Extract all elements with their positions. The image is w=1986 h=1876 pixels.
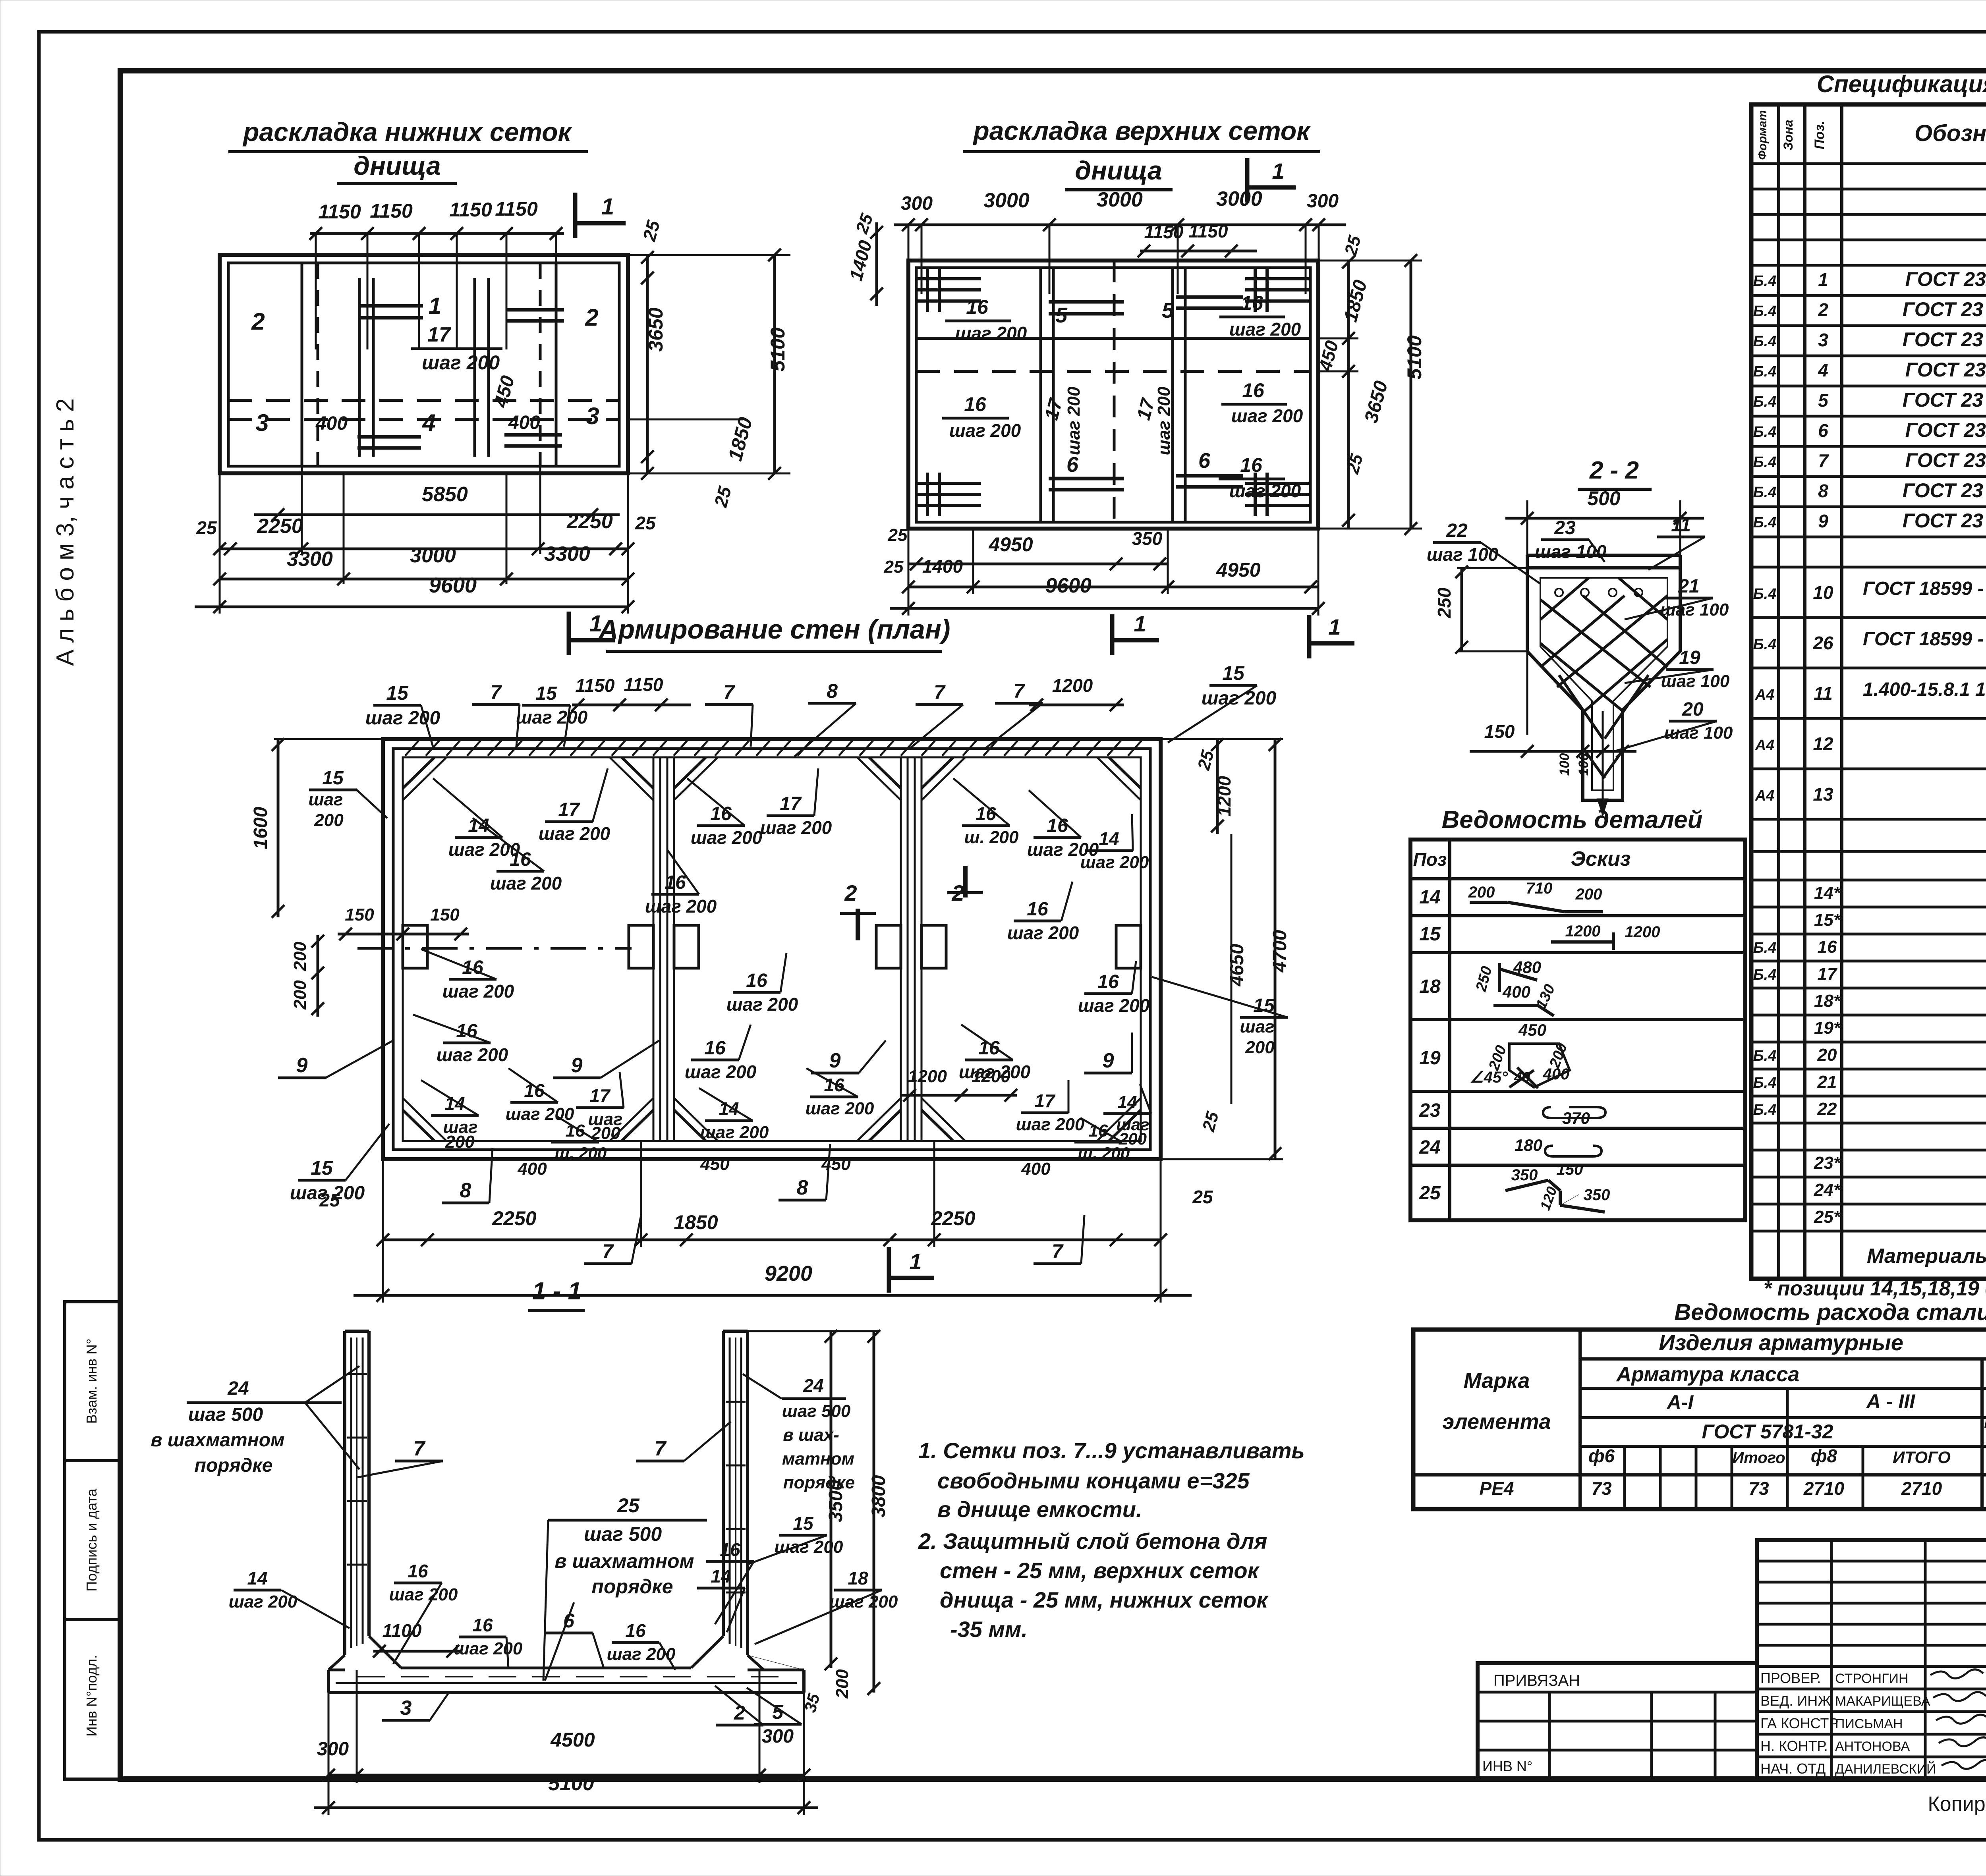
drawing C left labels: [309, 768, 387, 818]
svg-text:шаг 200: шаг 200: [1064, 386, 1084, 455]
svg-text:шаг 200: шаг 200: [1007, 923, 1079, 943]
svg-text:300: 300: [901, 193, 933, 214]
svg-text:в днище емкости.: в днище емкости.: [937, 1497, 1142, 1522]
svg-text:9600: 9600: [429, 573, 477, 597]
svg-text:150: 150: [430, 905, 460, 924]
svg-text:25: 25: [888, 525, 908, 545]
svg-text:шаг 200: шаг 200: [1016, 1115, 1085, 1134]
svg-text:шаг 200: шаг 200: [726, 994, 798, 1015]
svg-text:МАКАРИЩЕВА: МАКАРИЩЕВА: [1835, 1694, 1930, 1709]
svg-text:11: 11: [1814, 683, 1833, 704]
svg-text:16: 16: [1241, 292, 1263, 314]
svg-text:шаг 200: шаг 200: [1229, 319, 1301, 340]
svg-text:Б.4: Б.4: [1753, 1048, 1777, 1064]
svg-text:А4: А4: [1755, 787, 1775, 804]
svg-text:ГОСТ 23 279 - 85: ГОСТ 23 279 - 85: [1903, 510, 1986, 532]
svg-text:шаг 100: шаг 100: [1661, 672, 1730, 691]
svg-text:ф6: ф6: [1588, 1446, 1615, 1466]
svg-text:шаг 200: шаг 200: [1078, 995, 1150, 1016]
svg-text:7: 7: [490, 681, 502, 703]
drawing C cell 1 labels: [433, 778, 520, 860]
svg-text:3: 3: [586, 403, 599, 429]
svg-text:Изделия арматурные: Изделия арматурные: [1659, 1330, 1903, 1355]
left margin stamp boxes: [65, 1302, 120, 1779]
svg-text:Б.4: Б.4: [1753, 586, 1777, 602]
svg-text:3: 3: [255, 409, 269, 436]
svg-text:3000: 3000: [1097, 188, 1143, 211]
bottom annotations: [1928, 1791, 1986, 1847]
svg-text:16: 16: [1240, 454, 1263, 476]
section 1-1 tank walls: [345, 1331, 748, 1655]
svg-text:150: 150: [1557, 1161, 1583, 1178]
svg-text:15: 15: [322, 768, 344, 789]
svg-text:Б.4: Б.4: [1753, 484, 1777, 501]
drawing C corner fillets: [403, 757, 1141, 1141]
svg-text:2 - 2: 2 - 2: [1589, 457, 1639, 484]
svg-text:ГОСТ 23279 - 85: ГОСТ 23279 - 85: [1905, 419, 1986, 441]
svg-text:400: 400: [315, 413, 348, 434]
svg-text:ИНВ N°: ИНВ N°: [1482, 1758, 1532, 1774]
svg-text:шаг 200: шаг 200: [490, 873, 562, 894]
svg-text:1150: 1150: [318, 201, 361, 223]
svg-text:матном: матном: [782, 1449, 854, 1469]
svg-text:ш. 200: ш. 200: [964, 828, 1019, 847]
svg-text:шаг 200: шаг 200: [437, 1044, 508, 1065]
details list table: [1410, 840, 1745, 1220]
svg-text:ф8: ф8: [1811, 1446, 1837, 1466]
svg-text:1200: 1200: [1052, 675, 1093, 696]
svg-text:ВЕД. ИНЖ: ВЕД. ИНЖ: [1760, 1693, 1831, 1709]
svg-text:элемента: элемента: [1442, 1410, 1551, 1434]
svg-text:350: 350: [1132, 528, 1163, 549]
svg-text:180: 180: [1515, 1136, 1542, 1154]
svg-text:Эскиз: Эскиз: [1571, 847, 1631, 870]
svg-text:200: 200: [1575, 886, 1602, 903]
svg-text:1: 1: [601, 194, 614, 220]
drawing A bottom section mark 1: [569, 611, 615, 655]
drawing C bottom dimensions: [319, 1141, 1213, 1303]
svg-text:ГОСТ 23 279 - 85: ГОСТ 23 279 - 85: [1903, 298, 1986, 320]
svg-text:23: 23: [1419, 1100, 1441, 1121]
svg-text:20: 20: [1817, 1045, 1837, 1065]
svg-text:15: 15: [311, 1157, 333, 1179]
svg-text:6: 6: [1818, 420, 1828, 441]
svg-text:9: 9: [296, 1054, 308, 1077]
svg-text:16: 16: [1242, 379, 1265, 401]
svg-text:73: 73: [1748, 1478, 1769, 1499]
svg-text:ИТОГО: ИТОГО: [1893, 1448, 1951, 1467]
svg-text:14: 14: [1118, 1092, 1137, 1112]
svg-text:73: 73: [1591, 1478, 1612, 1499]
svg-text:16: 16: [964, 393, 987, 415]
svg-text:4950: 4950: [1216, 559, 1260, 581]
svg-text:шаг: шаг: [1240, 1017, 1274, 1036]
notes text: [918, 1438, 1305, 1642]
svg-text:8: 8: [460, 1179, 471, 1202]
svg-text:5100: 5100: [1403, 335, 1426, 379]
svg-text:шаг 500: шаг 500: [782, 1401, 851, 1421]
svg-text:шаг 200: шаг 200: [442, 981, 514, 1002]
svg-text:Б.4: Б.4: [1753, 363, 1777, 380]
svg-text:25: 25: [1419, 1183, 1441, 1204]
svg-text:24: 24: [227, 1378, 249, 1399]
svg-text:150: 150: [345, 905, 374, 924]
svg-text:14: 14: [247, 1568, 267, 1588]
svg-text:6: 6: [1198, 449, 1211, 473]
svg-text:шаг 200: шаг 200: [806, 1099, 874, 1118]
svg-text:Н. КОНТР.: Н. КОНТР.: [1760, 1738, 1828, 1754]
drawing C top labels: [365, 682, 440, 747]
specification table grid: [1751, 104, 1986, 1279]
svg-text:16: 16: [1027, 899, 1048, 920]
svg-text:днища: днища: [354, 151, 440, 180]
drawing B bottom section mark 1: [1112, 611, 1159, 655]
svg-text:16: 16: [408, 1561, 428, 1581]
svg-text:7: 7: [413, 1437, 426, 1460]
svg-text:15: 15: [1419, 924, 1441, 945]
svg-text:7: 7: [1818, 450, 1829, 471]
detail sketch pos 19: [1470, 1021, 1571, 1088]
svg-text:2: 2: [251, 308, 265, 335]
drawing C title: [598, 614, 950, 651]
svg-text:200: 200: [833, 1669, 852, 1699]
drawing C section marks 2-2: [840, 866, 983, 940]
svg-text:7: 7: [934, 681, 946, 703]
svg-text:Итого: Итого: [1732, 1449, 1785, 1467]
svg-text:1100: 1100: [383, 1620, 422, 1641]
steel table grid: [1413, 1330, 1986, 1509]
svg-text:в шахматном: в шахматном: [554, 1550, 694, 1572]
svg-text:17: 17: [780, 793, 802, 814]
svg-text:* позиции 14,15,18,19 см. вед: * позиции 14,15,18,19 см. ведомость дета…: [1764, 1277, 1986, 1300]
drawing A right dimensions: [220, 218, 790, 510]
svg-text:13: 13: [1813, 784, 1833, 805]
svg-text:ш. 200: ш. 200: [1078, 1144, 1130, 1162]
svg-text:Ведомость расхода стали на эле: Ведомость расхода стали на элемент, кг: [1674, 1299, 1986, 1325]
detail sketch pos 23: [1543, 1107, 1605, 1127]
specification title: [1777, 71, 1986, 104]
svg-text:Всего: Всего: [1984, 1413, 1986, 1432]
svg-text:21: 21: [1817, 1072, 1837, 1092]
svg-text:200: 200: [290, 942, 310, 971]
svg-text:25: 25: [635, 513, 656, 533]
svg-text:порядке: порядке: [591, 1575, 673, 1598]
svg-text:3: 3: [1818, 330, 1828, 350]
svg-text:раскладка верхних сеток: раскладка верхних сеток: [972, 116, 1311, 145]
svg-text:Б.4: Б.4: [1753, 514, 1777, 531]
svg-text:18: 18: [1419, 976, 1441, 997]
svg-text:6: 6: [1066, 453, 1079, 477]
section 1-1 wall tie ticks: [347, 1374, 746, 1592]
svg-text:19: 19: [1679, 647, 1700, 668]
detail 2-2 left dimension 250: [1434, 566, 1527, 654]
svg-text:9600: 9600: [1045, 574, 1092, 597]
svg-text:2710: 2710: [1901, 1478, 1942, 1499]
svg-text:7: 7: [1013, 680, 1025, 702]
svg-text:2: 2: [585, 304, 598, 331]
svg-text:11: 11: [1671, 515, 1691, 536]
svg-text:1200: 1200: [908, 1067, 947, 1086]
svg-text:23*: 23*: [1814, 1153, 1841, 1173]
detail 2-2 footing outline: [1527, 555, 1680, 800]
svg-text:1150: 1150: [1189, 221, 1228, 241]
svg-text:Армирование стен (план): Армирование стен (план): [598, 614, 950, 645]
svg-text:Б.4: Б.4: [1753, 394, 1777, 410]
svg-text:1: 1: [1818, 269, 1828, 290]
svg-text:3300: 3300: [544, 542, 590, 566]
title block signatures: [1760, 1669, 1986, 1777]
svg-text:шаг 200: шаг 200: [1080, 853, 1149, 872]
svg-text:200: 200: [1468, 884, 1495, 901]
svg-text:шаг 200: шаг 200: [516, 707, 588, 728]
svg-text:2: 2: [844, 880, 857, 905]
svg-text:5100: 5100: [767, 327, 789, 371]
svg-text:1200: 1200: [972, 1067, 1010, 1086]
svg-text:А л ь б о м 3, ч а с т ь 2: А л ь б о м 3, ч а с т ь 2: [52, 398, 79, 666]
svg-text:25*: 25*: [1814, 1207, 1841, 1227]
svg-text:Ведомость деталей: Ведомость деталей: [1442, 806, 1703, 834]
svg-text:18: 18: [848, 1568, 868, 1588]
svg-text:ДАНИЛЕВСКИЙ: ДАНИЛЕВСКИЙ: [1835, 1762, 1936, 1777]
svg-text:400: 400: [517, 1159, 547, 1179]
svg-text:шаг 200: шаг 200: [645, 896, 717, 917]
section 1-1 bottom dimensions: [314, 1670, 818, 1815]
svg-text:2250: 2250: [257, 515, 303, 538]
svg-text:7: 7: [723, 681, 735, 703]
svg-text:21: 21: [1678, 576, 1699, 597]
svg-text:10: 10: [1813, 582, 1833, 603]
svg-text:25: 25: [196, 517, 217, 538]
svg-text:Подпись и дата: Подпись и дата: [83, 1488, 100, 1592]
svg-text:в шахматном: в шахматном: [151, 1430, 284, 1451]
svg-text:5: 5: [1818, 390, 1829, 411]
drawing C top wall hatch: [405, 741, 1142, 756]
specification header texts: [1756, 110, 1986, 160]
svg-text:шаг 200: шаг 200: [422, 351, 500, 374]
svg-text:Б.4: Б.4: [1753, 1075, 1777, 1091]
svg-text:шаг 200: шаг 200: [229, 1592, 298, 1612]
specification rows 1-9: [1753, 268, 1986, 298]
svg-text:-35 мм.: -35 мм.: [950, 1617, 1028, 1642]
svg-text:400: 400: [1021, 1159, 1051, 1179]
svg-text:Спецификация к монолитной е: Спецификация к монолитной емкости РЕЧ: [1817, 71, 1986, 97]
svg-text:1: 1: [1134, 611, 1146, 636]
svg-text:4: 4: [422, 409, 435, 436]
svg-text:Б.4: Б.4: [1753, 333, 1777, 350]
svg-text:Б.4: Б.4: [1753, 454, 1777, 471]
svg-text:шаг 100: шаг 100: [1535, 541, 1607, 562]
svg-text:16: 16: [824, 1075, 844, 1095]
svg-text:1400: 1400: [922, 556, 963, 577]
drawing B bottom dimension chains: [884, 525, 1325, 616]
detail 2-2 labels: [1427, 520, 1540, 584]
svg-text:14: 14: [711, 1566, 731, 1586]
svg-text:Б.4: Б.4: [1753, 303, 1777, 320]
svg-text:1: 1: [1272, 158, 1284, 183]
svg-text:200: 200: [445, 1132, 475, 1152]
svg-text:Поз.: Поз.: [1812, 121, 1827, 149]
svg-text:200: 200: [290, 980, 310, 1010]
drawing B labels: [942, 292, 1303, 501]
svg-text:днища - 25 мм, нижних сеток: днища - 25 мм, нижних сеток: [940, 1587, 1269, 1612]
svg-text:15: 15: [793, 1513, 814, 1534]
svg-text:3300: 3300: [287, 548, 333, 571]
svg-text:шаг 200: шаг 200: [700, 1123, 769, 1142]
svg-text:ГОСТ 18599 - 83: ГОСТ 18599 - 83: [1863, 578, 1986, 599]
svg-text:300: 300: [317, 1739, 349, 1760]
svg-text:25: 25: [884, 557, 904, 577]
svg-text:8: 8: [827, 680, 838, 702]
svg-text:150: 150: [1484, 721, 1515, 742]
svg-text:Арматура класса: Арматура класса: [1616, 1363, 1800, 1386]
svg-text:19: 19: [1419, 1048, 1441, 1069]
section 1-1 title: [528, 1278, 585, 1310]
svg-text:Б.4: Б.4: [1753, 636, 1777, 653]
svg-text:450: 450: [821, 1154, 851, 1174]
svg-text:1150: 1150: [370, 200, 413, 222]
svg-text:7: 7: [602, 1240, 614, 1262]
svg-text:16: 16: [1818, 937, 1837, 957]
svg-text:5: 5: [1055, 303, 1068, 327]
svg-text:17: 17: [1034, 1090, 1056, 1111]
svg-text:350: 350: [1511, 1166, 1538, 1184]
drawing B internal lines: [916, 261, 1310, 529]
svg-text:ГОСТ 23279 - 85: ГОСТ 23279 - 85: [1905, 449, 1986, 471]
svg-text:200: 200: [1245, 1038, 1275, 1057]
svg-text:1200: 1200: [1565, 923, 1601, 940]
svg-text:1850: 1850: [674, 1211, 718, 1233]
svg-text:2: 2: [1818, 299, 1828, 320]
drawing B title: [963, 116, 1320, 190]
svg-text:А4: А4: [1755, 737, 1775, 754]
svg-text:шаг 500: шаг 500: [584, 1523, 662, 1545]
drawing A title: [228, 117, 588, 183]
svg-text:Формат: Формат: [1756, 110, 1769, 160]
svg-text:1. Сетки поз. 7...9 устанавли: 1. Сетки поз. 7...9 устанавливать: [918, 1438, 1305, 1463]
svg-text:7: 7: [1052, 1240, 1064, 1262]
svg-text:17: 17: [427, 323, 451, 346]
svg-text:Обозначение: Обозначение: [1915, 120, 1986, 146]
detail sketch pos 18: [1473, 958, 1559, 1016]
svg-text:∠45°: ∠45°: [1470, 1069, 1508, 1086]
drawing C cell 3 labels: [953, 778, 1019, 847]
svg-text:шаг 200: шаг 200: [454, 1639, 523, 1658]
svg-text:250: 250: [1434, 587, 1455, 618]
svg-text:9: 9: [571, 1054, 583, 1077]
svg-text:24: 24: [1419, 1137, 1440, 1158]
svg-text:ГОСТ 23 279 - 85: ГОСТ 23 279 - 85: [1903, 389, 1986, 411]
svg-text:6: 6: [563, 1610, 575, 1632]
svg-text:400: 400: [1502, 982, 1530, 1001]
svg-text:5100: 5100: [548, 1772, 594, 1795]
svg-text:Поз: Поз: [1413, 849, 1447, 870]
svg-text:шаг 200: шаг 200: [685, 1062, 757, 1082]
svg-text:200: 200: [314, 811, 344, 830]
svg-text:1150: 1150: [624, 674, 663, 695]
svg-text:стен - 25 мм, верхних сеток: стен - 25 мм, верхних сеток: [940, 1558, 1260, 1583]
svg-text:Зона: Зона: [1781, 120, 1795, 150]
svg-text:300: 300: [1307, 191, 1339, 212]
svg-text:1 - 1: 1 - 1: [532, 1278, 582, 1305]
svg-text:Инв N°подл.: Инв N°подл.: [83, 1655, 100, 1737]
svg-text:1: 1: [1328, 614, 1341, 639]
svg-text:16: 16: [704, 1038, 726, 1059]
svg-text:3800: 3800: [868, 1475, 889, 1517]
section 1-1 centre label 25: [543, 1494, 707, 1681]
svg-text:16: 16: [472, 1615, 493, 1635]
svg-text:22: 22: [1446, 520, 1468, 541]
detail sketch pos 15: [1551, 923, 1660, 950]
svg-text:шаг 200: шаг 200: [775, 1537, 843, 1557]
svg-text:500: 500: [1587, 487, 1621, 510]
detail 2-2 bottom dimensions: [1470, 711, 1636, 816]
svg-text:НАЧ. ОТД: НАЧ. ОТД: [1760, 1760, 1826, 1777]
svg-text:24*: 24*: [1814, 1180, 1841, 1200]
drawing A section mark 1 top: [575, 193, 626, 238]
svg-text:25: 25: [319, 1190, 340, 1210]
svg-text:Б.4: Б.4: [1753, 424, 1777, 440]
steel table data row: [1480, 1478, 1986, 1499]
detail sketch pos 25: [1505, 1161, 1610, 1212]
detail sketch pos 24: [1515, 1136, 1602, 1156]
svg-text:300: 300: [762, 1726, 794, 1747]
svg-text:400: 400: [508, 412, 540, 433]
drawing B left dimensions: [845, 211, 883, 306]
drawing A top dimension 1150x4: [309, 198, 564, 349]
svg-text:2710: 2710: [1803, 1478, 1845, 1499]
drawing C bottom section mark 1: [889, 1247, 934, 1293]
svg-text:2250: 2250: [566, 510, 613, 533]
svg-text:А4: А4: [1755, 687, 1775, 703]
svg-text:3000: 3000: [983, 189, 1030, 212]
svg-text:ГОСТ 23279 - 85: ГОСТ 23279 - 85: [1905, 268, 1986, 290]
svg-text:Б.4: Б.4: [1753, 940, 1777, 956]
svg-text:шаг 200: шаг 200: [760, 817, 832, 838]
svg-text:СТРОНГИН: СТРОНГИН: [1835, 1671, 1909, 1686]
drawing C cross walls: [653, 757, 922, 1141]
svg-text:Марка: Марка: [1464, 1369, 1530, 1393]
svg-text:8: 8: [1818, 481, 1828, 501]
svg-text:450: 450: [700, 1154, 730, 1174]
title block privyazan box: [1478, 1663, 1757, 1779]
svg-text:1600: 1600: [250, 807, 271, 849]
svg-text:АНТОНОВА: АНТОНОВА: [1835, 1739, 1910, 1754]
svg-text:Взам. инв N°: Взам. инв N°: [83, 1339, 100, 1424]
svg-text:4500: 4500: [550, 1729, 595, 1751]
svg-text:свободными концами е=325: свободными концами е=325: [937, 1468, 1250, 1493]
svg-text:9: 9: [1818, 511, 1828, 531]
svg-text:23: 23: [1554, 517, 1576, 538]
steel table header texts: [1442, 1330, 1986, 1467]
drawing A zone labels: [251, 293, 599, 436]
svg-text:шаг 200: шаг 200: [691, 827, 763, 848]
svg-text:25: 25: [1192, 1187, 1213, 1207]
svg-text:370: 370: [1562, 1109, 1590, 1127]
svg-text:14: 14: [1419, 887, 1440, 908]
detail 2-2 lattice: [1540, 578, 1667, 778]
section 1-1 right dimensions: [748, 1330, 889, 1714]
svg-text:15: 15: [535, 683, 557, 704]
svg-text:шаг 500: шаг 500: [188, 1404, 263, 1425]
drawing B section mark 1: [1247, 158, 1296, 203]
svg-text:1150: 1150: [1144, 222, 1184, 242]
svg-text:шаг 200: шаг 200: [389, 1585, 458, 1604]
svg-text:ПРОВЕР.: ПРОВЕР.: [1760, 1670, 1821, 1686]
detail 2-2 top dimension 500: [1505, 487, 1704, 735]
drawing C tank walls outline: [383, 739, 1161, 1159]
svg-text:шаг 200: шаг 200: [1154, 386, 1174, 455]
title block middle grid: [1757, 1540, 1986, 1779]
